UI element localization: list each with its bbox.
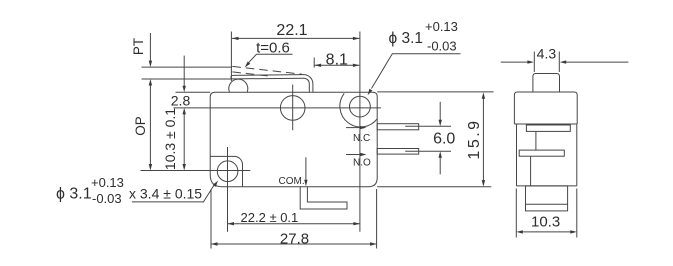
arrowhead 22.2 left: [228, 222, 235, 225]
projection line body bottom to side view: [377, 186, 491, 188]
dimension PT upper arrow: [149, 33, 151, 63]
side view plunger cap: [533, 74, 560, 93]
dimension 6.0 upper arrow: [439, 102, 441, 122]
side view middle block: [514, 124, 577, 186]
plunger dome: [229, 79, 248, 92]
arrowhead 22.1 left: [232, 37, 239, 40]
dimension 6.0 lower arrow: [439, 156, 441, 175]
bottom-left mounting hole: [217, 161, 238, 182]
svg-text:t=0.6: t=0.6: [256, 39, 290, 56]
svg-text:15.9: 15.9: [466, 118, 483, 159]
leader phi3.1 bottom: [132, 184, 215, 202]
dimension 4.3 left arrow: [501, 61, 530, 63]
svg-text:22.1: 22.1: [276, 22, 307, 39]
extension line 8.1 left: [313, 58, 315, 68]
arrowhead OP up: [149, 79, 152, 86]
bottom-left boss outline: [210, 156, 242, 186]
svg-text:ϕ 3.1: ϕ 3.1: [56, 186, 92, 203]
arrowhead 10.3 side right: [570, 230, 577, 233]
extension line left of lever end (22.1 left): [230, 32, 232, 82]
free-position extension line (PT top): [142, 66, 233, 68]
lever free position (dashed) upper line: [232, 66, 302, 74]
dimension 4.3 extension lines: [534, 52, 559, 73]
svg-text:x 3.4 ± 0.15: x 3.4 ± 0.15: [129, 186, 202, 202]
svg-text:27.8: 27.8: [280, 230, 309, 247]
dimension 2.8 upper arrow: [183, 56, 185, 88]
arrowhead 10.3 side left: [516, 230, 523, 233]
dimension 4.3 right arrow: [564, 61, 628, 63]
top-right hinge boss arc: [340, 93, 377, 127]
side view upper block: [514, 92, 577, 124]
arrowhead OP down: [149, 164, 152, 171]
N.C label arrow: [346, 127, 362, 129]
side view terminal stem 1: [535, 131, 537, 150]
arrowhead 2.8 down: [183, 86, 186, 93]
dimension 15.9 line: [482, 96, 484, 184]
dimension 10.3±0.1 line: [183, 113, 185, 167]
arrowhead 22.2 right: [353, 222, 360, 225]
arrowhead phi3.1 top leader: [368, 89, 373, 96]
lever (pressed position): [231, 75, 313, 92]
svg-text:OP: OP: [133, 116, 148, 136]
N.C terminal: [377, 124, 419, 130]
switch body outline: [210, 92, 377, 187]
extension line 27.8 right: [376, 189, 378, 249]
svg-text:N.O: N.O: [353, 158, 371, 169]
arrowhead 27.8 left: [211, 242, 218, 245]
arrowhead COM down: [304, 180, 307, 187]
dimension 22.1 line: [232, 37, 359, 39]
operating-position extension line (PT bottom): [142, 78, 233, 80]
dimension OP line: [149, 84, 151, 167]
arrowhead 8.1 right: [353, 64, 360, 67]
svg-text:10.3 ± 0.1: 10.3 ± 0.1: [162, 108, 178, 170]
arrowhead 10.3 down: [183, 164, 186, 171]
side view terminal stem 2: [530, 156, 532, 186]
COM terminal (L-shape): [300, 187, 347, 209]
svg-text:N.C: N.C: [353, 133, 370, 144]
dimension 6.0 extension N.O: [405, 150, 451, 152]
COM leader arrow: [305, 157, 307, 181]
svg-text:+0.13: +0.13: [91, 175, 124, 190]
svg-text:2.8: 2.8: [171, 93, 191, 109]
dimension 27.8 line: [211, 243, 377, 245]
arrowhead 15.9 down: [482, 180, 485, 187]
arrowhead 8.1 left: [315, 64, 322, 67]
leader phi3.1 top: [372, 54, 461, 89]
arrowhead 15.9 up: [482, 92, 485, 99]
svg-text:22.2 ± 0.1: 22.2 ± 0.1: [241, 210, 299, 225]
N.O label arrow: [346, 154, 362, 156]
arrowhead 22.1 right: [353, 37, 360, 40]
arrowhead 27.8 right: [370, 242, 377, 245]
svg-text:8.1: 8.1: [326, 51, 348, 68]
arrowhead 6.0 lower: [439, 151, 442, 158]
side view lower block inner line: [526, 203, 568, 205]
N.O terminal: [377, 149, 419, 155]
body-top extension line (2.8 top): [176, 91, 211, 93]
lever free position (dashed) lower line: [232, 72, 272, 77]
vertical centerline / extension through top-right hole: [359, 32, 361, 232]
arrowhead 4.3 right: [560, 60, 567, 63]
arrowhead 10.3 up: [183, 108, 186, 115]
arrowhead 6.0 upper: [439, 120, 442, 127]
horizontal centerline through top holes: [174, 107, 382, 109]
top middle circle vertical centerline: [292, 85, 294, 131]
dimension 10.3 line: [521, 231, 573, 233]
leader t=0.6: [248, 54, 293, 64]
vertical centerline / extension through bottom-left hole: [227, 147, 229, 232]
svg-text:4.3: 4.3: [537, 46, 557, 62]
extension line 27.8 left: [210, 189, 212, 249]
svg-text:ϕ 3.1: ϕ 3.1: [389, 30, 424, 47]
dimension 22.2 line: [228, 223, 360, 225]
side view terminal bar 2: [519, 150, 564, 156]
top-right mounting hole: [350, 96, 371, 117]
arrowhead PT down: [149, 61, 152, 68]
svg-text:10.3: 10.3: [531, 214, 560, 231]
dimension 6.0 extension N.C: [405, 125, 451, 127]
svg-text:-0.03: -0.03: [427, 39, 457, 54]
top middle circle: [280, 96, 305, 121]
arrowhead 4.3 left: [527, 60, 534, 63]
svg-text:COM.: COM.: [279, 176, 305, 187]
arrowhead phi3.1 bottom leader: [213, 181, 218, 187]
projection line body top to side view: [377, 91, 493, 93]
side view terminal bar 1: [526, 125, 570, 131]
svg-text:PT: PT: [131, 38, 146, 55]
arrowhead t=0.6 leader: [245, 62, 251, 68]
svg-text:6.0: 6.0: [433, 131, 455, 148]
dimension 10.3 extension lines: [516, 189, 577, 238]
dimension 8.1 line: [315, 64, 360, 66]
svg-text:+0.13: +0.13: [425, 19, 458, 34]
side view lower block: [526, 186, 568, 211]
arrowhead N.C right: [360, 126, 367, 129]
arrowhead N.O right: [360, 153, 367, 156]
horizontal centerline through bottom hole: [141, 170, 251, 172]
svg-text:-0.03: -0.03: [92, 191, 122, 206]
